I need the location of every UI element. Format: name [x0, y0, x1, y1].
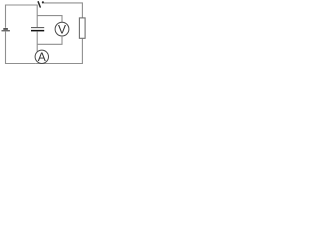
svg-text:V: V	[58, 22, 66, 36]
switch right contact dot	[42, 1, 44, 3]
wire: top-right from switch to resistor branch	[44, 3, 83, 18]
voltmeter V (circle)	[55, 22, 69, 36]
wire: left side down from battery to bottom-left corner	[6, 31, 36, 63]
switch S (open blade)	[38, 2, 40, 7]
wire: voltmeter top lead from middle branch to voltmeter	[37, 16, 62, 23]
resistor R (rectangle)	[79, 18, 85, 38]
capacitor C: bottom plate	[31, 30, 44, 32]
ammeter A (circle, tangent on bottom wire)	[35, 50, 48, 63]
wire: voltmeter bottom lead back to middle branch	[37, 36, 62, 44]
wire: middle branch from capacitor down to ammeter	[36, 32, 38, 53]
wire: top-left from battery up and right to switch	[6, 5, 38, 28]
wire: bottom run under ammeter to bottom-right corner and up to resistor	[35, 39, 82, 64]
battery cell: short thick plate (top)	[3, 28, 8, 30]
wire: middle branch from switch junction down to capacitor	[36, 5, 38, 27]
battery cell: long thin plate (bottom)	[2, 30, 10, 31]
svg-text:A: A	[38, 50, 46, 64]
capacitor C: top plate	[31, 26, 44, 29]
